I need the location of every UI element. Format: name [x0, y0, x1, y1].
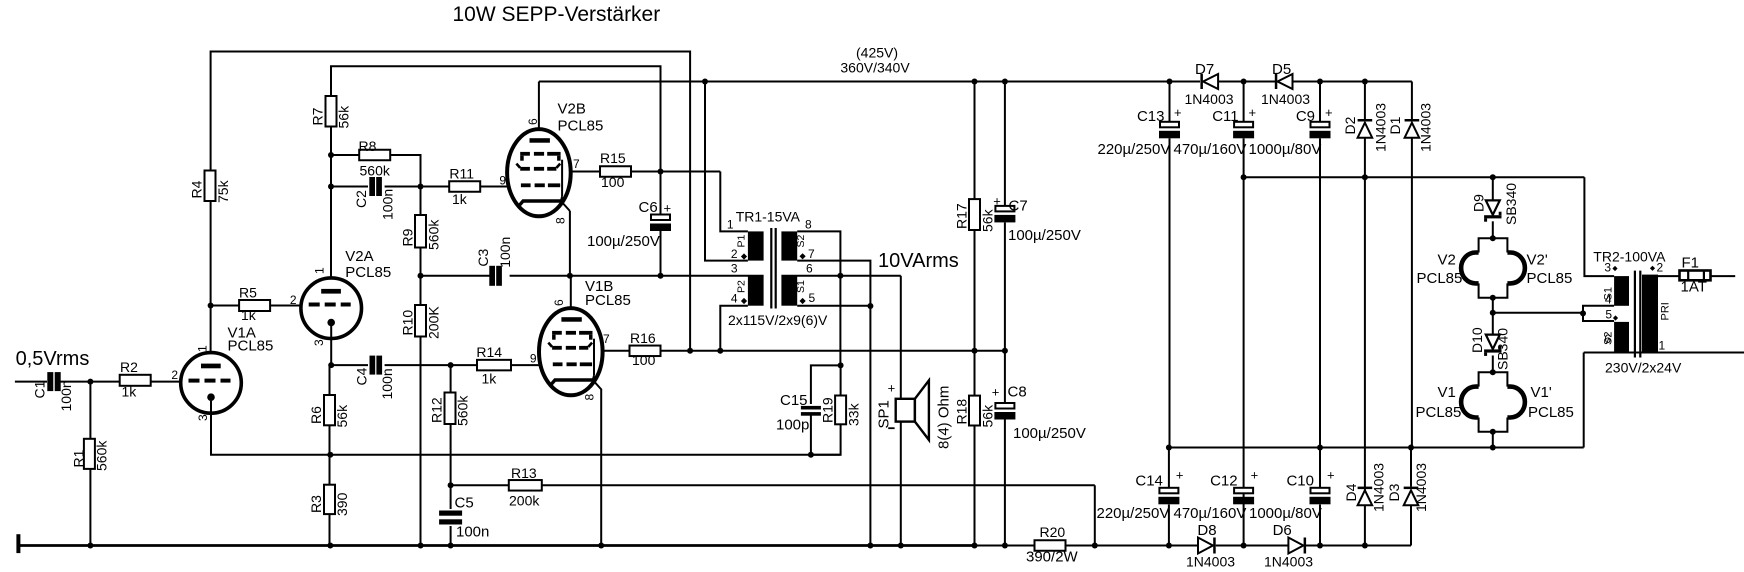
svg-text:PCL85: PCL85	[1416, 404, 1462, 421]
wire C10 lower	[1319, 448, 1321, 546]
wire R18 column	[974, 351, 976, 546]
svg-text:1N4003: 1N4003	[1264, 554, 1313, 570]
svg-text:360V/340V: 360V/340V	[840, 60, 910, 76]
capacitor C10	[1249, 468, 1335, 523]
svg-text:R9: R9	[399, 228, 415, 246]
node V2A cathode junction	[328, 362, 334, 368]
diode D4	[1343, 463, 1387, 512]
svg-text:220µ/250V: 220µ/250V	[1097, 505, 1170, 522]
svg-text:V2A: V2A	[345, 248, 373, 265]
diode D10	[1469, 313, 1511, 373]
svg-text:C13: C13	[1137, 108, 1165, 125]
capacitor C15	[776, 392, 821, 434]
svg-text:6: 6	[1604, 332, 1611, 346]
wire V2A anode column	[330, 187, 332, 279]
node rail-R10 junction	[418, 273, 424, 279]
svg-text:F1: F1	[1682, 255, 1700, 272]
svg-text:9: 9	[530, 352, 537, 366]
node R3 junction	[327, 452, 333, 458]
svg-text:C11: C11	[1212, 108, 1238, 125]
wire R6 column	[329, 365, 331, 455]
svg-text:1N4003: 1N4003	[1413, 463, 1429, 512]
svg-text:100p: 100p	[776, 417, 809, 434]
svg-text:2: 2	[1657, 261, 1664, 275]
diode D3	[1386, 448, 1429, 546]
svg-text:C12: C12	[1210, 473, 1238, 490]
svg-text:3: 3	[1604, 261, 1611, 275]
input label 0,5Vrms	[16, 348, 90, 370]
svg-text:560k: 560k	[93, 440, 109, 471]
node R19 top junction	[838, 362, 844, 368]
svg-text:+: +	[1251, 468, 1259, 483]
svg-text:PCL85: PCL85	[1528, 404, 1574, 421]
diode D9	[1471, 177, 1520, 238]
wire R1 column	[89, 382, 91, 546]
svg-text:V1: V1	[1438, 384, 1456, 401]
wire feedback line A	[211, 52, 690, 351]
svg-text:R3: R3	[308, 495, 324, 513]
capacitor C9	[1249, 82, 1333, 178]
node R8 junction	[328, 152, 334, 158]
wire V1A anode to R5 node	[210, 306, 212, 353]
svg-text:+: +	[1174, 105, 1182, 120]
svg-text:1N4003: 1N4003	[1261, 91, 1310, 107]
svg-text:D9: D9	[1471, 194, 1487, 212]
svg-text:+: +	[1327, 468, 1335, 483]
node C15 bottom junction	[808, 452, 814, 458]
pentode V1B	[530, 278, 631, 401]
wire R12 column	[450, 365, 452, 485]
svg-text:2: 2	[171, 368, 178, 382]
node V1B pin6 junction	[567, 273, 573, 279]
wire C11 column lower	[1243, 177, 1245, 545]
node output junction	[867, 303, 873, 309]
resistor R16	[630, 330, 661, 368]
resistor R11	[449, 166, 480, 208]
resistor R20	[1026, 524, 1079, 566]
svg-text:C14: C14	[1135, 473, 1163, 490]
wire mid rail to speaker	[900, 276, 902, 546]
svg-text:1N4003: 1N4003	[1418, 103, 1434, 152]
diode D7	[1185, 61, 1234, 107]
wire line B	[331, 66, 661, 171]
resistor R1	[70, 439, 109, 471]
svg-text:100: 100	[601, 174, 625, 190]
svg-text:C7: C7	[1009, 198, 1028, 215]
node C6 bottom	[658, 273, 664, 279]
wire R7 to junctions	[330, 127, 332, 187]
svg-text:V2': V2'	[1527, 252, 1548, 269]
svg-text:SP1: SP1	[876, 400, 893, 428]
svg-text:5: 5	[809, 291, 816, 305]
resistor R12	[429, 393, 471, 427]
node R16 feedback junction	[687, 348, 693, 354]
svg-text:D6: D6	[1273, 522, 1292, 539]
label 10VArms	[878, 250, 959, 272]
wire C14 lower	[1168, 448, 1170, 546]
svg-text:100n: 100n	[497, 237, 513, 268]
svg-text:C9: C9	[1296, 108, 1315, 125]
wire TR1 pin5 to output	[797, 305, 870, 307]
wire mid rail	[421, 275, 901, 277]
wire V2A cathode to node	[330, 326, 332, 365]
svg-text:33k: 33k	[846, 402, 862, 426]
svg-text:V1': V1'	[1531, 384, 1552, 401]
resistor R14	[476, 344, 511, 387]
wire V1B anode up	[570, 276, 572, 308]
svg-text:D1: D1	[1387, 116, 1403, 134]
capacitor C3	[475, 237, 513, 286]
wire R2 to V1A grid	[151, 381, 181, 383]
node ground junction	[1241, 543, 1247, 549]
capacitor C4	[354, 356, 396, 400]
svg-text:+: +	[888, 381, 896, 396]
wire V2 bottom to node	[1492, 298, 1494, 313]
svg-text:+: +	[1176, 468, 1184, 483]
svg-text:100n: 100n	[379, 368, 395, 399]
svg-text:R17: R17	[953, 203, 969, 229]
wire TR1 pin8 drop	[797, 231, 840, 275]
capacitor C6	[587, 172, 671, 276]
node R15-C6 junction	[658, 169, 664, 175]
svg-text:R18: R18	[953, 399, 969, 425]
svg-text:C2: C2	[353, 190, 369, 208]
capacitor C14	[1097, 468, 1184, 523]
svg-text:1k: 1k	[241, 307, 257, 323]
wire TR2 pin4 pin5 link	[1583, 306, 1614, 321]
transformer TR1	[727, 209, 828, 329]
svg-text:7: 7	[808, 247, 815, 261]
node ground junction	[87, 543, 93, 549]
resistor R6	[308, 395, 350, 428]
heater V2 V2'	[1417, 235, 1573, 301]
wire V2B pin8 down	[569, 211, 571, 276]
wire C9 column lower	[1319, 177, 1321, 447]
svg-text:D2: D2	[1342, 116, 1358, 134]
node D1-D3 junction	[1408, 445, 1414, 451]
node C10 junction	[1317, 445, 1323, 451]
svg-text:C5: C5	[455, 495, 474, 512]
pentode V2B	[499, 101, 603, 225]
svg-text:SB340: SB340	[1503, 183, 1519, 225]
svg-text:7: 7	[603, 332, 610, 346]
wire heater mid to TR2	[1493, 312, 1582, 314]
svg-text:1: 1	[727, 218, 734, 232]
svg-text:C15: C15	[780, 392, 808, 409]
svg-text:3: 3	[196, 414, 210, 421]
resistor R3	[308, 485, 350, 516]
node R17 top	[972, 79, 978, 85]
resistor R19	[819, 396, 861, 427]
node pin8 junction	[837, 273, 843, 279]
svg-text:1: 1	[1659, 339, 1666, 353]
svg-text:1: 1	[195, 345, 209, 352]
node R17 bottom	[972, 348, 978, 354]
svg-text:+: +	[992, 385, 1000, 400]
svg-text:D3: D3	[1386, 483, 1402, 501]
wire heater top line	[1244, 177, 1615, 276]
svg-text:560k: 560k	[425, 219, 441, 250]
svg-text:1k: 1k	[452, 191, 468, 207]
svg-text:220µ/250V: 220µ/250V	[1098, 141, 1171, 158]
node TR2 heater junction	[1580, 310, 1586, 316]
svg-text:PCL85: PCL85	[228, 338, 274, 355]
svg-text:C10: C10	[1286, 473, 1314, 490]
node C13 top	[1167, 79, 1173, 85]
svg-text:9: 9	[499, 174, 506, 188]
svg-text:230V/2x24V: 230V/2x24V	[1605, 360, 1682, 376]
svg-text:+: +	[993, 194, 1001, 209]
wire C15 top link	[811, 365, 841, 404]
svg-text:8: 8	[583, 394, 597, 401]
svg-text:R4: R4	[189, 180, 205, 198]
node ground junction	[1092, 543, 1098, 549]
fuse F1	[1658, 255, 1735, 296]
svg-text:470µ/160V: 470µ/160V	[1174, 505, 1247, 522]
svg-text:1k: 1k	[482, 371, 498, 387]
node C11 top	[1241, 79, 1247, 85]
svg-text:D5: D5	[1272, 61, 1291, 78]
svg-text:TR1-15VA: TR1-15VA	[736, 209, 801, 225]
transformer TR2	[1593, 249, 1682, 376]
svg-text:100n: 100n	[380, 189, 396, 220]
svg-text:1N4003: 1N4003	[1185, 91, 1234, 107]
resistor R4	[189, 171, 231, 204]
svg-text:D10: D10	[1469, 327, 1485, 353]
wire R3 leads	[329, 455, 331, 546]
svg-text:390/2W: 390/2W	[1026, 549, 1079, 566]
wire C8 column	[1004, 351, 1006, 546]
wire V1B pin7 to R16	[603, 350, 629, 352]
wire C2 wires	[331, 186, 450, 188]
svg-text:R11: R11	[449, 166, 474, 182]
wire R8 loop	[331, 155, 421, 187]
svg-text:100n: 100n	[58, 380, 74, 411]
svg-text:PCL85: PCL85	[1417, 270, 1463, 287]
svg-text:2: 2	[731, 247, 738, 261]
capacitor C13	[1098, 82, 1182, 448]
svg-text:10VArms: 10VArms	[878, 250, 959, 272]
svg-text:R10: R10	[399, 310, 415, 336]
svg-text:56k: 56k	[980, 404, 996, 428]
svg-text:R20: R20	[1040, 524, 1066, 540]
svg-text:3: 3	[312, 339, 326, 346]
capacitor C2	[353, 177, 396, 220]
svg-text:+: +	[1249, 105, 1257, 120]
diode D6	[1264, 522, 1313, 570]
node C11 heater junction	[1241, 174, 1247, 180]
svg-text:R12: R12	[429, 397, 445, 423]
node C9 top	[1317, 79, 1323, 85]
capacitor C11	[1174, 82, 1257, 178]
svg-text:3: 3	[731, 262, 738, 276]
wire R19 leads	[811, 365, 841, 454]
wire C7 column	[1004, 82, 1006, 351]
svg-text:1AT: 1AT	[1681, 279, 1707, 296]
svg-text:SB340: SB340	[1495, 328, 1511, 370]
ground terminal	[16, 534, 20, 553]
wire C1 to node	[61, 381, 120, 383]
node ground junction	[898, 543, 904, 549]
wire output down to ground	[869, 306, 871, 546]
resistor R18	[953, 396, 995, 428]
svg-text:200k: 200k	[509, 493, 540, 509]
svg-text:6: 6	[806, 262, 813, 276]
wire input	[15, 381, 47, 383]
wire C15 bottom	[810, 415, 812, 455]
capacitor C1	[32, 372, 75, 411]
node C2-R9 junction	[418, 184, 424, 190]
wire R17 column	[974, 82, 976, 351]
svg-text:V2: V2	[1438, 252, 1456, 269]
svg-text:100µ/250V: 100µ/250V	[1013, 425, 1086, 442]
node C2 junction	[328, 184, 334, 190]
triode V1A	[171, 325, 273, 422]
svg-text:5: 5	[1605, 308, 1612, 322]
wire D2 column lower	[1364, 177, 1366, 545]
label 425V	[840, 45, 910, 76]
svg-text:D4: D4	[1343, 483, 1359, 501]
wire HT rail 360V	[539, 82, 1412, 120]
svg-text:D7: D7	[1195, 61, 1214, 78]
svg-text:2x115V/2x9(6)V: 2x115V/2x9(6)V	[728, 312, 828, 328]
capacitor C7	[993, 194, 1081, 245]
node C7 bottom	[1002, 348, 1008, 354]
wire R15 to TR1 pin1	[631, 172, 748, 232]
svg-text:C6: C6	[639, 199, 658, 216]
svg-text:1k: 1k	[122, 384, 138, 400]
node heater mid junction	[1490, 310, 1496, 316]
wire TR2 bottom line	[1584, 352, 1744, 354]
resistor R13	[509, 465, 542, 509]
svg-text:390: 390	[334, 492, 350, 516]
wire R14 to V1B grid	[511, 364, 539, 366]
wire R9 column	[420, 187, 422, 276]
node R5 junction	[208, 303, 214, 309]
node D2 junction	[1362, 174, 1368, 180]
svg-text:PCL85: PCL85	[558, 118, 604, 135]
svg-text:1: 1	[312, 267, 326, 274]
wire V1 bottom to line	[1492, 432, 1494, 448]
svg-text:R5: R5	[239, 285, 257, 301]
wire R13 ground-return line	[451, 485, 1095, 545]
svg-text:P1: P1	[736, 234, 748, 247]
svg-text:R13: R13	[511, 465, 537, 481]
svg-text:+: +	[664, 201, 672, 216]
svg-text:S1: S1	[795, 280, 807, 293]
svg-text:6: 6	[552, 299, 566, 306]
node rail TR1 junction	[702, 79, 708, 85]
svg-text:R14: R14	[476, 344, 502, 360]
wire V2B anode to HT rail	[538, 82, 540, 130]
svg-text:R19: R19	[819, 397, 835, 423]
svg-text:C8: C8	[1008, 384, 1027, 401]
svg-text:C3: C3	[475, 248, 491, 266]
node D2 top	[1362, 79, 1368, 85]
capacitor C8	[992, 384, 1086, 443]
resistor R7	[310, 96, 352, 129]
triode V2A	[290, 248, 391, 346]
resistor R8	[359, 138, 391, 179]
svg-text:560k: 560k	[455, 395, 471, 426]
svg-text:560k: 560k	[360, 163, 391, 179]
node ground junction	[972, 543, 978, 549]
svg-text:100: 100	[632, 352, 656, 368]
svg-text:1000µ/80V: 1000µ/80V	[1249, 141, 1322, 158]
node ground junction	[1002, 543, 1008, 549]
node ground junction	[1362, 543, 1368, 549]
svg-text:100µ/250V: 100µ/250V	[587, 233, 660, 250]
svg-text:C1: C1	[32, 380, 48, 398]
resistor R5	[239, 285, 270, 324]
svg-text:6: 6	[526, 118, 540, 125]
svg-text:R1: R1	[70, 449, 86, 467]
capacitor C12	[1174, 468, 1259, 523]
wire V2B pin7 to R15	[571, 171, 600, 173]
node ground junction	[418, 543, 424, 549]
wire V2A cathode line	[331, 364, 477, 366]
diode D8	[1186, 522, 1235, 570]
svg-text:PCL85: PCL85	[345, 264, 391, 281]
svg-text:D8: D8	[1197, 522, 1216, 539]
resistor R2	[120, 359, 151, 400]
svg-text:R16: R16	[630, 330, 656, 346]
svg-text:10W SEPP-Verstärker: 10W SEPP-Verstärker	[453, 3, 661, 26]
node ground junction	[1317, 543, 1323, 549]
resistor R17	[953, 199, 995, 232]
heater V1 V1'	[1416, 369, 1574, 435]
wire R10 leads	[420, 276, 422, 546]
node ground junction	[598, 543, 604, 549]
resistor R10	[399, 305, 441, 339]
svg-text:8(4) Ohm: 8(4) Ohm	[936, 386, 953, 449]
svg-text:(425V): (425V)	[856, 45, 898, 61]
svg-text:100n: 100n	[456, 524, 489, 541]
diode D1	[1387, 103, 1434, 448]
wire R11 to V2B grid	[480, 186, 507, 188]
node input junction	[87, 379, 93, 385]
node ground junction	[867, 543, 873, 549]
svg-text:470µ/160V: 470µ/160V	[1174, 141, 1247, 158]
wire cathode feedback line	[330, 454, 840, 456]
svg-text:0,5Vrms: 0,5Vrms	[16, 348, 90, 370]
node R13 junction	[448, 482, 454, 488]
wire pin8 node down	[839, 276, 841, 366]
svg-text:4: 4	[1605, 293, 1612, 307]
node D9 junction	[1490, 174, 1496, 180]
svg-text:7: 7	[573, 157, 580, 171]
svg-text:100µ/250V: 100µ/250V	[1008, 227, 1081, 244]
svg-text:200K: 200K	[425, 306, 441, 339]
svg-text:75k: 75k	[215, 179, 231, 203]
wire ground rail	[18, 544, 1411, 547]
node ground junction	[327, 543, 333, 549]
node C7 top	[1002, 79, 1008, 85]
speaker SP1	[876, 380, 953, 449]
wire TR1 pin2 drop	[705, 82, 748, 261]
diode D5	[1261, 61, 1310, 107]
svg-text:1N4003: 1N4003	[1186, 554, 1235, 570]
title	[453, 3, 661, 26]
svg-text:+: +	[1325, 105, 1333, 120]
svg-text:V2B: V2B	[558, 101, 586, 118]
svg-text:4: 4	[731, 292, 738, 306]
svg-text:56k: 56k	[335, 105, 351, 129]
svg-text:R2: R2	[120, 359, 138, 375]
svg-text:8: 8	[805, 218, 812, 232]
svg-text:2: 2	[290, 293, 297, 307]
svg-text:PCL85: PCL85	[585, 292, 631, 309]
